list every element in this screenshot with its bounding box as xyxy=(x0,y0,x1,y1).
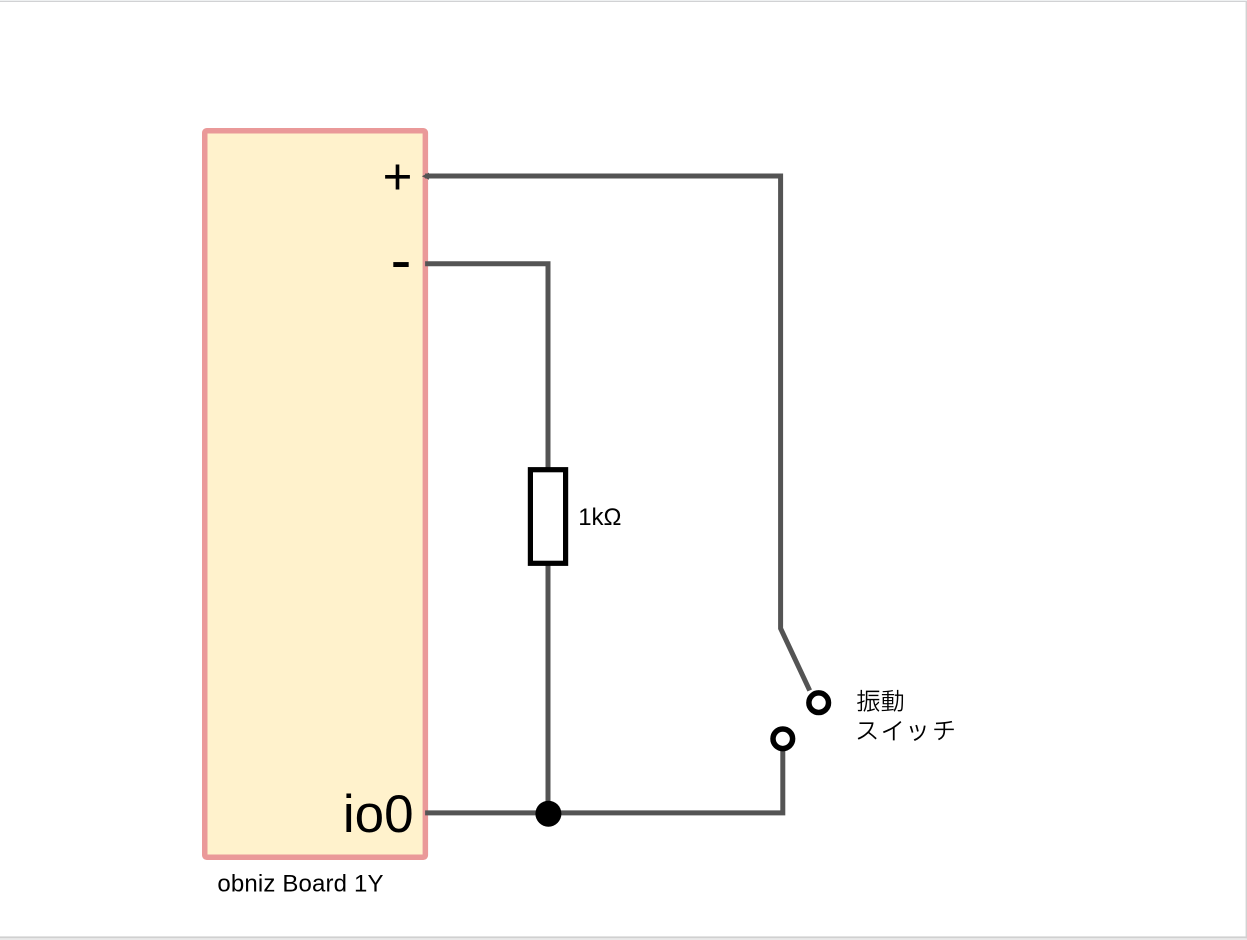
svg-text:1kΩ: 1kΩ xyxy=(578,504,621,531)
svg-text:io0: io0 xyxy=(343,785,414,844)
svg-text:+: + xyxy=(383,148,413,205)
svg-text:obniz Board 1Y: obniz Board 1Y xyxy=(217,871,383,898)
svg-text:-: - xyxy=(391,226,412,296)
